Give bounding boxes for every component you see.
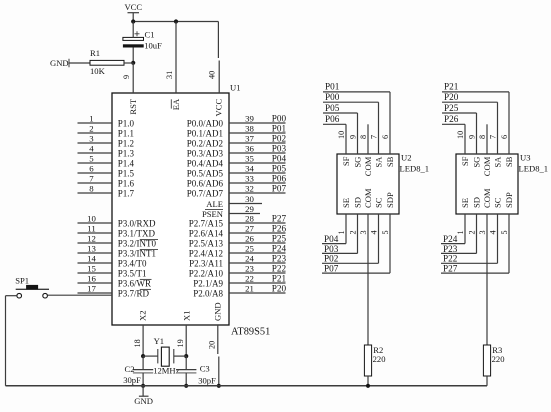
svg-text:1: 1 [89,114,93,124]
svg-text:9: 9 [467,135,476,139]
pin name RST [128,98,138,115]
net label P22 [443,254,458,264]
wire net P20 to U3 [442,102,498,154]
U3 pin number 1 [456,230,465,234]
svg-text:8: 8 [478,135,487,139]
U3 pin number 7 [488,135,497,139]
node junction R2/ground rail [366,384,370,388]
U3 pin number 8 [478,135,487,139]
svg-text:30: 30 [245,194,254,204]
net label P05 [325,103,340,113]
resistor R3 body [483,345,490,376]
crystal Y1 designator [154,336,165,346]
pin 7 stub and name P1.6 [78,174,135,189]
pin 11 stub and name P3.1/TXD [78,224,156,239]
crystal Y1 body [161,347,169,366]
svg-text:SP1: SP1 [15,275,29,285]
svg-text:P3.7/RD: P3.7/RD [118,289,150,299]
pin 3 stub and name P1.2 [78,134,135,149]
svg-text:GND: GND [134,396,153,406]
pin name EA overline [170,99,172,108]
U3 pin number 2 [467,230,476,234]
pin 26 wire, name P2.5/A13, net label P25 [189,233,287,248]
U2 pin name SF top [341,156,351,166]
resistor R1 body [90,60,124,65]
net label P27 [443,264,458,274]
U2 pin number 4 [369,230,378,234]
svg-text:P20: P20 [272,283,287,293]
svg-text:SC: SC [493,197,503,208]
pin 34 wire, name P0.5/AD5, net label P05 [187,163,287,178]
svg-text:9: 9 [348,135,357,139]
wire pin18 X2 [142,325,144,356]
wire net P00 to U2 [323,102,379,154]
pin 29 PSEN stub [202,204,260,219]
svg-text:P06: P06 [272,173,287,183]
svg-text:5: 5 [381,230,390,234]
LED display U2 box [337,154,399,214]
svg-text:4: 4 [89,144,94,154]
resistor R1 value 10K [90,66,106,76]
svg-text:9: 9 [122,75,131,79]
power VCC label [124,2,142,12]
pin 6 stub and name P1.5 [78,164,135,179]
svg-text:P2.5/A13: P2.5/A13 [189,239,224,249]
pin 33 wire, name P0.6/AD6, net label P06 [187,173,287,188]
svg-text:P07: P07 [272,183,287,193]
U3 pin name SA top [493,156,503,168]
net label P23 [443,244,458,254]
U2 pin number 1 [337,230,346,234]
pin 37 wire, name P0.2/AD2, net label P02 [187,133,287,148]
switch SP1 designator [15,275,29,285]
capacitor C1 designator [145,30,155,40]
capacitor C2 value 30pF [123,375,141,385]
svg-text:P00: P00 [272,113,287,123]
U3 pin number 10 [456,131,465,139]
pin 17 stub and name P3.7/RD [78,284,152,299]
wire Y1 right lead [174,355,186,357]
svg-text:SE: SE [460,198,470,208]
pin 8 stub and name P1.7 [78,184,135,199]
svg-text:GND: GND [213,302,223,321]
svg-text:SDP: SDP [504,192,514,208]
wire C1 bottom plate to RST node [132,48,134,63]
pin number 40 [208,71,217,79]
svg-text:U1: U1 [230,83,241,93]
svg-text:P25: P25 [272,233,287,243]
U2 pin name SE bottom [341,198,351,208]
net label P24 [443,234,458,244]
svg-text:P04: P04 [272,153,287,163]
wire net P23 from U3 [441,214,477,253]
svg-text:14: 14 [87,254,96,264]
svg-text:38: 38 [245,124,254,134]
svg-text:21: 21 [245,284,254,294]
svg-text:3: 3 [478,230,487,234]
svg-text:6: 6 [500,135,509,139]
svg-text:22: 22 [245,274,254,284]
wire pin19 X1 [185,325,187,356]
net label P06 [325,114,340,124]
svg-text:P26: P26 [444,114,459,124]
U3 pin name SE bottom [460,198,470,208]
svg-text:39: 39 [245,114,254,124]
svg-text:X2: X2 [138,310,148,321]
svg-text:40: 40 [208,71,217,79]
wire VCC rail horizontal to pin40 [133,21,218,23]
svg-text:37: 37 [245,134,254,144]
svg-text:P2.0/A8: P2.0/A8 [193,289,223,299]
svg-text:P1.1: P1.1 [118,129,134,139]
svg-text:VCC: VCC [214,99,224,117]
svg-text:COM: COM [482,156,492,176]
U3 pin name SB top [504,156,514,167]
svg-text:U2: U2 [401,152,412,162]
pin 25 wire, name P2.4/A12, net label P24 [189,243,287,258]
U2 pin number 3 [359,230,368,234]
svg-text:8: 8 [359,135,368,139]
pin name EA [171,98,181,110]
svg-text:P3.6/WR: P3.6/WR [118,279,151,289]
U3 pin name SDP bottom [504,192,514,208]
U3 pin name COM top [482,156,492,176]
capacitor C3 plates [176,370,196,373]
svg-text:P2.7/A15: P2.7/A15 [189,219,224,229]
pin 22 wire, name P2.1/A9, net label P21 [193,273,286,288]
switch SP1 left contact [17,293,22,298]
capacitor C3 designator [200,364,210,374]
svg-text:U3: U3 [520,152,531,162]
switch SP1 right contact [43,293,48,298]
U2 pin name SDP bottom [385,192,395,208]
wire pin31 EA [175,22,177,94]
pin 38 wire, name P0.1/AD1, net label P01 [187,123,287,138]
svg-text:P0.7/AD7: P0.7/AD7 [187,189,224,199]
power GND port bar [68,59,70,67]
svg-text:23: 23 [245,264,254,274]
svg-text:SG: SG [472,157,482,168]
svg-text:17: 17 [87,284,96,294]
U3 pin number 3 [478,230,487,234]
svg-text:P23: P23 [272,253,287,263]
svg-text:2: 2 [467,230,476,234]
svg-text:SB: SB [385,156,395,167]
pin 39 wire, name P0.0/AD0, net label P00 [187,113,287,128]
svg-text:34: 34 [245,164,254,174]
wire SP1 to left rail [6,295,17,297]
svg-text:3: 3 [359,230,368,234]
svg-text:SG: SG [353,157,363,168]
svg-text:7: 7 [488,135,497,139]
svg-text:P03: P03 [272,143,287,153]
ground symbol below rail [139,386,149,396]
svg-text:P27: P27 [272,213,287,223]
svg-text:P1.2: P1.2 [118,139,134,149]
svg-text:26: 26 [245,234,254,244]
svg-text:29: 29 [245,204,254,214]
svg-text:10K: 10K [90,66,106,76]
svg-text:SF: SF [341,156,351,166]
capacitor C1 plates [123,31,144,47]
pin name VCC(pin40) [214,99,224,117]
svg-text:4: 4 [488,230,497,234]
U2 designator [401,152,412,162]
net label P00 [325,92,340,102]
wire net P05 to U2 [323,113,358,154]
node junction VCC/EA [174,19,178,23]
net label P25 [444,103,459,113]
svg-text:P26: P26 [272,223,287,233]
svg-text:P05: P05 [272,163,287,173]
svg-text:P0.6/AD6: P0.6/AD6 [187,179,224,189]
wire net P02 from U2 [322,214,379,263]
svg-text:11: 11 [87,224,95,234]
svg-text:15: 15 [87,264,96,274]
U2 pin number 7 [369,135,378,139]
svg-text:C2: C2 [125,364,135,374]
svg-text:SE: SE [341,198,351,208]
U3 pin name SF top [460,156,470,166]
svg-text:P2.3/A11: P2.3/A11 [189,259,223,269]
net label P26 [444,114,459,124]
U2 pin number 5 [381,230,390,234]
svg-text:P23: P23 [443,244,458,254]
wire pin20 GND upper [217,325,219,354]
capacitor C1 value 10uF [144,41,162,51]
wire left rail down [5,296,7,386]
U2 pin name COM top [363,156,373,176]
svg-text:SA: SA [374,156,384,168]
svg-text:P25: P25 [444,103,459,113]
svg-text:P20: P20 [444,92,459,102]
U2 pin number 9 [348,135,357,139]
U3 pin number 6 [500,135,509,139]
crystal Y1 right plate [173,349,175,363]
node junction C2/ground rail [141,384,145,388]
pin 35 wire, name P0.4/AD4, net label P04 [187,153,287,168]
svg-text:10: 10 [87,214,96,224]
svg-text:10: 10 [337,131,346,139]
svg-text:P1.3: P1.3 [118,149,135,159]
pin 13 stub and name P3.3/INT1 [78,244,159,259]
wire U3 COM to resistor R3 [486,214,488,345]
pin 27 wire, name P2.6/A14, net label P26 [189,223,287,238]
svg-text:VCC: VCC [124,2,142,12]
capacitor C2 top lead [142,356,144,370]
U2 pin number 8 [359,135,368,139]
svg-text:30pF: 30pF [123,375,141,385]
wire net P26 to U3 [442,124,465,154]
wire net P22 from U3 [441,214,498,263]
svg-text:3: 3 [89,134,94,144]
net label P21 [444,82,459,92]
svg-text:SF: SF [460,156,470,166]
pin 14 stub and name P3.4/T0 [78,254,148,269]
pin 36 wire, name P0.3/AD3, net label P03 [187,143,287,158]
wire net P21 to U3 [442,92,509,154]
svg-text:P2.6/A14: P2.6/A14 [189,229,224,239]
svg-text:10: 10 [456,131,465,139]
switch SP1 bar and actuator [16,285,49,289]
U3 pin number 5 [500,230,509,234]
resistor R2 designator [373,345,383,355]
capacitor C3 bottom lead [185,373,187,386]
pin number 20 [208,341,217,349]
svg-text:P01: P01 [325,82,340,92]
U2 pin number 6 [381,135,390,139]
svg-text:LED8_1: LED8_1 [400,164,430,174]
svg-text:220: 220 [373,354,386,364]
svg-text:5: 5 [89,154,94,164]
U2 pin name SD bottom [353,197,363,208]
svg-text:P06: P06 [325,114,340,124]
U3 pin name SG top [472,157,482,168]
pin 32 wire, name P0.7/AD7, net label P07 [187,183,287,198]
resistor R3 designator [492,345,502,355]
node junction R1/C1/RST [131,61,135,65]
svg-text:12: 12 [87,234,96,244]
pin 5 stub and name P1.4 [78,154,135,169]
pin 23 wire, name P2.2/A10, net label P22 [189,263,287,278]
U1 reference designator label [230,83,241,93]
svg-text:P1.7: P1.7 [118,189,135,199]
svg-text:28: 28 [245,214,254,224]
svg-text:P01: P01 [272,123,287,133]
svg-text:P21: P21 [444,82,459,92]
svg-text:12MHz: 12MHz [153,365,179,375]
resistor R2 body [364,345,371,376]
wire pin9 RST [132,63,134,93]
svg-text:31: 31 [165,71,174,79]
svg-text:P0.3/AD3: P0.3/AD3 [187,149,224,159]
svg-text:P22: P22 [443,254,458,264]
U3 pin number 9 [467,135,476,139]
svg-text:P3.0/RXD: P3.0/RXD [118,219,156,229]
U1 part value label AT89S51 [231,326,270,337]
svg-text:P3.2/INT0: P3.2/INT0 [118,239,157,249]
wire VCC to C1 top plate [132,22,134,38]
svg-text:6: 6 [381,135,390,139]
crystal Y1 value 12MHz [153,365,179,375]
resistor R3 value 220 [492,354,505,364]
U3 part value LED8_1 [519,164,549,174]
pin 1 stub and name P1.0 [78,114,135,129]
pin 24 wire, name P2.3/A11, net label P23 [189,253,286,268]
wire R2 to ground rail [367,376,369,386]
pin 28 wire, name P2.7/A15, net label P27 [189,213,287,228]
pin 12 stub and name P3.2/INT0 [78,234,159,249]
svg-text:SDP: SDP [385,192,395,208]
svg-text:P2.1/A9: P2.1/A9 [193,279,223,289]
svg-text:P2.2/A10: P2.2/A10 [189,269,224,279]
svg-text:16: 16 [87,274,96,284]
svg-text:2: 2 [348,230,357,234]
svg-text:COM: COM [363,188,373,208]
svg-text:24: 24 [245,254,254,264]
LED display U3 box [456,154,518,214]
svg-text:27: 27 [245,224,254,234]
net label P07 [324,264,339,274]
svg-text:33: 33 [245,174,254,184]
wire pin20 GND lower [218,357,220,386]
svg-text:R1: R1 [90,48,100,58]
svg-text:SD: SD [472,197,482,208]
svg-text:P0.5/AD5: P0.5/AD5 [187,169,224,179]
pin 16 stub and name P3.6/WR [78,274,152,289]
svg-text:30pF: 30pF [198,376,216,386]
svg-text:P1.6: P1.6 [118,179,135,189]
svg-text:P3.5/T1: P3.5/T1 [118,269,147,279]
svg-text:EA: EA [171,98,181,110]
wire R3 to ground rail [486,376,488,386]
net label P03 [324,244,339,254]
resistor R1 designator [90,48,100,58]
svg-text:P0.1/AD1: P0.1/AD1 [187,129,223,139]
wire VCC power symbol stem and bar [128,13,140,22]
U3 COM top pin stub [486,124,488,154]
svg-text:P22: P22 [272,263,287,273]
net label P04 [324,234,339,244]
svg-text:P24: P24 [443,234,458,244]
svg-text:P3.4/T0: P3.4/T0 [118,259,147,269]
svg-text:C1: C1 [145,30,155,40]
pin 10 stub and name P3.0/RXD [78,214,157,229]
svg-text:COM: COM [363,156,373,176]
svg-text:COM: COM [482,188,492,208]
svg-text:7: 7 [89,174,94,184]
svg-text:P3.3/INT1: P3.3/INT1 [118,249,156,259]
U2 pin number 2 [348,230,357,234]
capacitor C2 designator [125,364,135,374]
svg-text:P04: P04 [324,234,339,244]
U2 part value LED8_1 [400,164,430,174]
U3 designator [520,152,531,162]
svg-text:Y1: Y1 [154,336,165,346]
crystal Y1 left plate [157,349,159,363]
svg-text:P07: P07 [324,264,339,274]
capacitor C3 top lead [185,356,187,370]
U3 pin name SC bottom [493,197,503,208]
node junction pin20/ground rail [217,384,221,388]
svg-text:10uF: 10uF [144,41,162,51]
svg-text:GND: GND [50,58,69,68]
svg-text:20: 20 [208,341,217,349]
svg-text:PSEN: PSEN [202,209,224,219]
svg-text:P03: P03 [324,244,339,254]
wire net P25 to U3 [442,113,477,154]
wire SP1 to pin17 [47,294,112,296]
svg-text:SD: SD [353,197,363,208]
svg-text:P24: P24 [272,243,287,253]
wire U2 COM to resistor R2 [367,214,369,345]
svg-text:P3.1/TXD: P3.1/TXD [118,229,156,239]
U2 pin name SA top [374,156,384,168]
pin 4 stub and name P1.3 [78,144,135,159]
pin name GND(pin20) [213,302,223,321]
svg-text:5: 5 [500,230,509,234]
svg-text:19: 19 [176,339,185,347]
svg-text:220: 220 [492,354,505,364]
capacitor C3 value 30pF [198,376,216,386]
wire GND port to R1 [69,62,90,64]
ground label GND [134,396,153,406]
svg-text:25: 25 [245,244,254,254]
pin name X2 [138,310,148,321]
wire pin40 VCC lower segment [218,61,220,94]
wire net P03 from U2 [322,214,358,253]
svg-text:P0.4/AD4: P0.4/AD4 [187,159,224,169]
